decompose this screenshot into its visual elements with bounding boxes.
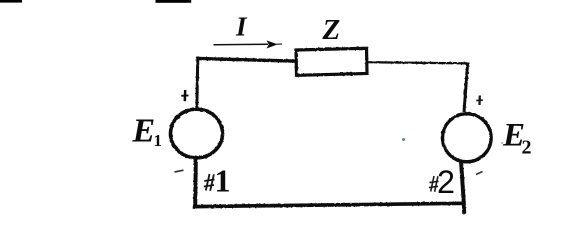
wire: right vertical (lower) with stub below bottom wire <box>461 161 464 214</box>
svg-text:2: 2 <box>437 164 455 200</box>
source E2 polarity + <box>476 96 483 106</box>
label E2 <box>502 118 532 159</box>
current arrow <box>214 40 283 48</box>
source E1 polarity - <box>175 170 184 172</box>
label E1 <box>132 113 163 151</box>
svg-text:2: 2 <box>522 137 532 159</box>
wire: top right segment <box>365 62 468 63</box>
crop mark bar (top middle) <box>156 0 192 3</box>
svg-text:E: E <box>132 113 156 150</box>
wire: left vertical (upper) <box>197 57 198 109</box>
source E1 polarity + <box>181 90 188 101</box>
source E2 (circle) <box>443 114 492 162</box>
svg-text:1: 1 <box>154 131 163 150</box>
source E2 polarity - <box>476 172 483 175</box>
node label #1 <box>204 163 231 199</box>
wire: top left segment <box>198 59 299 62</box>
wire: right vertical (upper) <box>464 63 468 113</box>
impedance Z (box) <box>296 48 367 75</box>
svg-text:1: 1 <box>215 163 231 199</box>
wire: left vertical (lower) <box>193 158 198 207</box>
source E1 (circle) <box>171 109 223 158</box>
crop mark bar (top left) <box>0 0 22 3</box>
svg-text:I: I <box>235 12 248 42</box>
svg-text:Z: Z <box>322 14 341 46</box>
node label #2 <box>429 164 455 200</box>
wire: bottom segment <box>193 203 465 206</box>
